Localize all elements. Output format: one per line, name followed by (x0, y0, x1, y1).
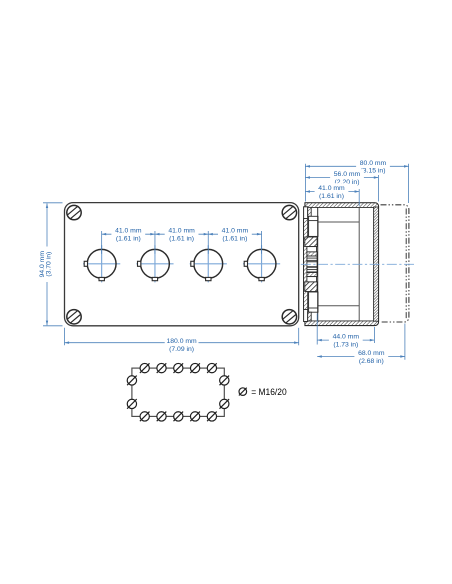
cover plate section (left strip) (304, 207, 308, 322)
svg-text:180.0 mm: 180.0 mm (166, 338, 197, 345)
svg-text:(1.61 in): (1.61 in) (222, 236, 247, 243)
dimension 80.0 mm overall depth (305, 158, 408, 175)
pushbutton hole 3 (190, 245, 227, 282)
knockout hole 14 (220, 399, 230, 409)
dimension 68.0 mm depth with cover (317, 348, 405, 365)
knockout hole 7 (157, 412, 167, 422)
dimension 41.0 mm inner depth (305, 183, 359, 200)
dimension 94.0 mm height (39, 203, 54, 325)
front view: enclosure face plate (65, 203, 299, 326)
extension line left (64, 328, 66, 346)
knockout hole 11 (127, 376, 137, 386)
knockout hole 4 (190, 363, 200, 373)
svg-text:(7.09 in): (7.09 in) (169, 346, 194, 353)
pushbutton hole 4 (243, 245, 280, 282)
dimension 41.0 mm hole pitch (102, 226, 155, 243)
centerline (301, 263, 415, 265)
knockout hole 2 (157, 363, 167, 373)
extension line (154, 231, 156, 254)
knockout hole 5 (207, 363, 217, 373)
dimension 41.0 mm hole pitch (208, 226, 261, 243)
screw 4 (282, 310, 296, 324)
svg-text:41.0 mm: 41.0 mm (168, 228, 195, 235)
legend symbol (239, 388, 247, 396)
knockout hole 1 (140, 363, 150, 373)
screw 3 (67, 310, 81, 324)
svg-text:80.0 mm: 80.0 mm (360, 160, 387, 167)
knockout hole 3 (174, 363, 184, 373)
extension line (377, 175, 379, 202)
side view bottom wall (hatched) (305, 321, 379, 326)
extension line (304, 164, 306, 202)
dimension 44.0 mm inner depth (317, 332, 374, 349)
svg-text:(3.70 in): (3.70 in) (46, 252, 53, 277)
knockout hole 10 (207, 412, 217, 422)
screw 1 (67, 205, 81, 219)
phantom cover inner line (405, 209, 407, 319)
knockout hole 13 (220, 376, 230, 386)
extension line (207, 231, 209, 254)
side view top wall (hatched) (305, 203, 379, 208)
extension line (316, 314, 318, 345)
extension line top (43, 202, 63, 204)
inner cavity bottom line (318, 305, 359, 307)
svg-text:41.0 mm: 41.0 mm (318, 185, 345, 192)
svg-text:41.0 mm: 41.0 mm (115, 228, 142, 235)
extension line (101, 231, 103, 254)
extension line (408, 164, 410, 203)
svg-text:(1.73 in): (1.73 in) (333, 342, 358, 349)
svg-text:(1.61 in): (1.61 in) (169, 236, 194, 243)
pushbutton hole 2 (136, 245, 173, 282)
svg-text:56.0 mm: 56.0 mm (334, 171, 361, 178)
extension line (261, 231, 263, 254)
svg-text:44.0 mm: 44.0 mm (333, 334, 360, 341)
screw 2 (282, 205, 296, 219)
knockout pattern rectangle (132, 368, 224, 416)
pushbutton hole 1 (83, 245, 120, 282)
svg-text:68.0 mm: 68.0 mm (358, 350, 385, 357)
dimension 56.0 mm body depth (305, 169, 378, 186)
extension line right (298, 328, 300, 346)
svg-text:(1.61 in): (1.61 in) (319, 193, 344, 200)
svg-text:(1.61 in): (1.61 in) (116, 236, 141, 243)
side view back wall (hatched) (374, 207, 379, 321)
extension line (404, 324, 406, 360)
svg-text:41.0 mm: 41.0 mm (222, 228, 249, 235)
extension line (373, 327, 375, 343)
svg-text:(2.68 in): (2.68 in) (359, 358, 384, 365)
dimension 180.0 mm width (65, 336, 299, 353)
knockout hole 8 (174, 412, 184, 422)
inner cavity top line (318, 221, 359, 223)
knockout hole 12 (127, 399, 137, 409)
svg-text:(3.15 in): (3.15 in) (361, 168, 386, 175)
knockout hole 9 (190, 412, 200, 422)
knockout hole 6 (140, 412, 150, 422)
side view: enclosure body outline (305, 203, 379, 326)
phantom cover outline (381, 205, 409, 322)
dimension 41.0 mm hole pitch (155, 226, 208, 243)
extension line bottom (43, 325, 63, 327)
extension line (358, 189, 360, 206)
svg-text:= M16/20: = M16/20 (251, 387, 287, 398)
inner wall line (358, 207, 360, 321)
flange stack (305, 207, 318, 321)
